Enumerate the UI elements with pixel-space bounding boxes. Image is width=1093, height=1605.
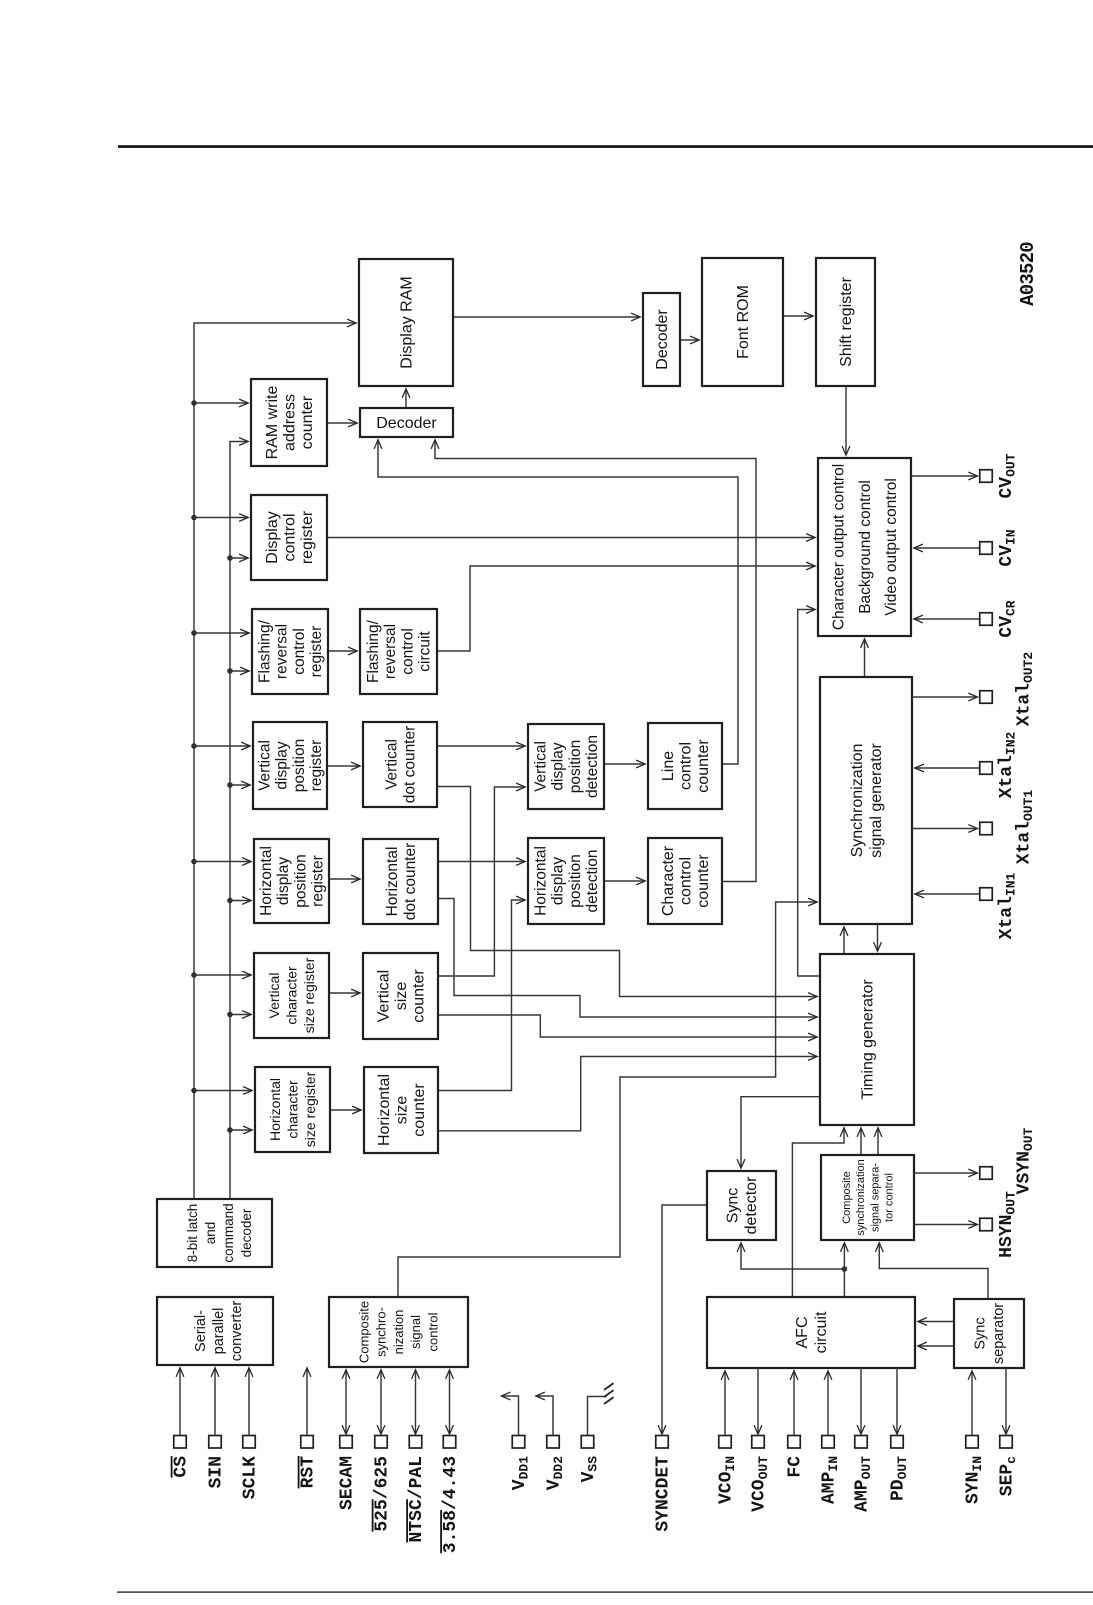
wire: trunk2 branch to Horizontal display position register [230,900,251,902]
wire: Display control register to Character output control [327,537,815,539]
block: Flashing/reversal control circuit [360,609,437,694]
wire: trunk1 branch to Vertical display position register [194,745,250,747]
svg-text:register: register [299,510,316,564]
svg-text:control: control [677,857,694,905]
svg-text:register: register [308,626,325,678]
svg-text:display: display [550,742,567,790]
block: Composite synchronization signal separator control [821,1155,914,1240]
svg-text:position: position [291,739,308,792]
svg-text:detection: detection [584,850,601,913]
wire: trunk1 branch to Horizontal character size register [194,1090,252,1092]
svg-text:SECAM: SECAM [338,1456,358,1510]
svg-text:Horizontal: Horizontal [258,846,275,916]
wire: Timing generator to Character output control [798,610,820,977]
pin NTSC/PAL [407,1370,427,1542]
svg-text:signal separa-: signal separa- [869,1163,881,1232]
svg-text:SYNCDET: SYNCDET [654,1456,674,1532]
block: AFC circuit [707,1297,915,1368]
svg-text:8-bit latch: 8-bit latch [185,1204,200,1263]
block: Horizontal dot counter [363,839,438,924]
svg-text:register: register [310,855,327,907]
pin AMPIN [820,1371,842,1504]
wire: Character control counter to Decoder [435,440,756,882]
svg-text:detection: detection [584,735,601,798]
block: Character control counter [648,838,722,924]
svg-text:character: character [284,1080,300,1139]
svg-text:Decoder: Decoder [654,309,671,370]
svg-text:Synchronization: Synchronization [849,744,866,858]
wire: Sync detector to SYNCDET pin [662,1205,707,1434]
top rule [118,145,1093,148]
wire: Line control counter to Decoder [378,440,738,764]
wire: Composite sync signal control to Synchronization signal generator [398,902,817,1297]
pin CVCR [914,600,1019,637]
block: Vertical dot counter [363,722,437,807]
svg-text:size: size [393,1096,410,1125]
wire: Horizontal dot counter to Timing generator [438,899,817,1018]
wire: Shift register to Character output control [845,386,847,455]
svg-text:RAM write: RAM write [264,386,281,460]
pin VSYNOUT [914,1127,1036,1194]
wire: trunk2 branch to Flashing register [230,670,249,672]
pin AMPOUT [853,1368,875,1512]
svg-text:SCLK: SCLK [241,1456,261,1499]
pin XtalIN1 [915,872,1019,939]
svg-text:Horizontal: Horizontal [267,1078,283,1141]
svg-text:Horizontal: Horizontal [376,1074,393,1146]
pin SYNIN [964,1371,986,1504]
block: Shift register [816,258,875,386]
svg-text:NTSC/PAL: NTSC/PAL [407,1456,427,1542]
svg-text:Vertical: Vertical [375,970,392,1022]
svg-text:Shift register: Shift register [838,276,855,366]
block: Sync separator [954,1299,1024,1368]
wire: trunk1 branch to Display control register [194,517,248,519]
wire: Composite sync separator control to Timing generator (2) [877,1128,879,1155]
wire: Horizontal dot counter to Horizontal display position detection [438,861,525,863]
wire: trunk2 branch to Horizontal character size register [230,1129,252,1131]
svg-text:counter: counter [410,969,427,1023]
svg-text:Timing generator: Timing generator [859,979,876,1100]
wire: Sync separator to AFC circuit (2) [918,1345,954,1347]
svg-text:3.58/4.43: 3.58/4.43 [441,1456,461,1553]
svg-text:reversal: reversal [382,624,399,679]
wire: trunk2 branch to Display control register [230,557,248,559]
svg-text:Vertical: Vertical [266,973,282,1019]
svg-text:detector: detector [743,1176,760,1234]
pin XtalOUT1 [912,790,1036,865]
svg-text:converter: converter [229,1301,245,1362]
svg-text:position: position [567,854,584,907]
block: Decoder (RAM address) [360,408,453,437]
block: Horizontal display position register [254,839,329,923]
wire: Vertical dot counter to Vertical display position detection [437,745,525,747]
svg-text:address: address [281,394,298,451]
wire: trunk1 branch to Horizontal display position register [194,861,251,863]
wire: trunk1 branch to RAM write address counter [194,402,248,404]
svg-text:Composite: Composite [841,1171,853,1224]
wire: Vertical display position detection to Line control counter [604,763,645,765]
wire: Vertical display position register to Vertical dot counter [327,765,360,767]
svg-text:position: position [567,740,584,793]
svg-text:counter: counter [695,739,712,793]
block: Decoder (font) [643,293,680,386]
wire: Decoder to Display RAM [405,389,407,408]
block: Timing generator [820,954,914,1125]
svg-text:size register: size register [302,1071,318,1147]
pin VSS [579,1383,613,1482]
wire: Horizontal size counter to Horizontal display position detection [438,900,525,1091]
wire: trunk2 branch to Vertical display position register [230,784,250,786]
pin SEPc [998,1368,1020,1496]
pin CVOUT [911,453,1019,498]
block: Flashing/reversal control register [252,609,328,694]
wire: Timing generator to Sync detector [741,1097,820,1168]
wire: Sync separator to AFC circuit (1) [918,1321,954,1323]
block: Display RAM [359,259,453,386]
svg-text:A03520: A03520 [1017,242,1039,306]
svg-text:Flashing/: Flashing/ [365,619,382,683]
block: Line control counter [648,723,722,809]
svg-text:Sync: Sync [973,1317,989,1349]
wire: AFC circuit to Sync detector and sync separator control [842,1243,848,1297]
wire: Vertical size counter to Timing generator [438,1015,817,1037]
svg-text:control: control [281,513,298,561]
pin SYNCDET [654,1436,674,1532]
svg-text:control: control [426,1312,441,1351]
svg-text:synchronization: synchronization [855,1159,867,1235]
pin VDD2 [536,1396,566,1490]
svg-text:525/625: 525/625 [373,1456,393,1532]
svg-text:SIN: SIN [207,1456,227,1488]
svg-text:Background control: Background control [857,480,874,614]
pin SIN [207,1368,227,1488]
svg-text:Decoder: Decoder [376,415,437,432]
svg-text:command: command [221,1203,236,1262]
pin HSYNOUT [914,1191,1019,1258]
svg-text:synchro-: synchro- [374,1307,389,1357]
svg-text:and: and [203,1222,218,1245]
pin VCOOUT [750,1368,772,1512]
svg-text:register: register [308,740,325,792]
svg-text:signal: signal [408,1315,423,1349]
svg-text:Character: Character [660,845,677,916]
wire: branch to Sync detector [741,1243,844,1269]
pin XtalOUT2 [912,652,1036,727]
block: Vertical display position register [253,722,327,809]
svg-text:AFC: AFC [794,1317,811,1349]
block: Horizontal size counter [364,1067,438,1153]
pin VCOIN [717,1371,739,1504]
wire: Horizontal display position register to Horizontal dot counter [329,878,360,880]
wire: trunk2 branch to Vertical character size register [230,1014,251,1016]
wire: Flashing circuit to Character output control [437,566,815,651]
wire: font Decoder to Font ROM [680,339,699,341]
svg-text:Flashing/: Flashing/ [256,619,273,683]
wire: bus trunk 1 from 8-bit latch to Display RAM [191,323,356,1199]
svg-text:parallel: parallel [211,1308,227,1355]
svg-text:Font ROM: Font ROM [735,285,752,359]
block: Sync detector [707,1171,776,1240]
block: Vertical display position detection [528,724,604,809]
svg-text:display: display [550,857,567,905]
svg-text:character: character [283,966,299,1025]
pin VDD1 [502,1396,532,1490]
pin RST [299,1368,319,1488]
svg-text:dot counter: dot counter [402,843,419,921]
block: Serial-parallel converter [157,1297,273,1365]
svg-text:Vertical: Vertical [256,740,273,791]
svg-text:dot counter: dot counter [401,726,418,804]
pin FC [786,1371,806,1478]
block: Horizontal character size register [255,1067,330,1152]
block: Vertical character size register [254,953,329,1038]
svg-text:position: position [292,854,309,907]
wire: Sync separator to Composite sync separator control [879,1243,988,1299]
svg-text:RST: RST [299,1456,319,1489]
svg-text:CS: CS [172,1456,192,1478]
svg-text:Vertical: Vertical [532,741,549,792]
svg-text:reversal: reversal [274,624,291,679]
block: Vertical size counter [363,953,438,1039]
svg-text:Horizontal: Horizontal [532,846,549,916]
wire: Synchronization signal generator to Character output control [864,639,866,677]
svg-text:decoder: decoder [239,1208,254,1257]
pin PDOUT [889,1368,911,1501]
wire: trunk1 branch to Flashing register [194,632,249,634]
svg-text:nization: nization [391,1310,406,1355]
svg-text:Video output control: Video output control [883,478,900,616]
pin 3.58/4.43 [441,1370,461,1553]
wire: Flashing register to Flashing circuit [328,650,357,652]
svg-text:FC: FC [786,1456,806,1478]
svg-text:control: control [399,628,416,675]
wire: trunk1 branch to Vertical character size register [194,974,251,976]
wire: Composite sync separator control to Timing generator (1) [860,1128,862,1155]
svg-text:control: control [291,628,308,675]
block: Display control register [251,495,327,580]
svg-text:tor control: tor control [884,1173,896,1222]
svg-text:counter: counter [695,854,712,908]
svg-text:size register: size register [301,957,317,1033]
svg-text:Composite: Composite [356,1301,371,1363]
svg-text:Character output control: Character output control [831,464,848,630]
svg-text:signal generator: signal generator [868,742,885,857]
block: Horizontal display position detection [528,838,604,924]
svg-text:Vertical: Vertical [383,739,400,790]
svg-text:Line: Line [660,751,677,781]
wire: Vertical dot counter to Timing generator [437,787,817,997]
wire: Vertical character size register to Vertical size counter [329,992,360,994]
block: RAM write address counter [251,379,327,466]
wire: Vertical size counter to Vertical display position detection [438,787,525,976]
figure number A03520 [1017,242,1039,306]
svg-text:circuit: circuit [813,1311,830,1353]
svg-text:Serial-: Serial- [193,1310,209,1352]
wire: Timing generator to Synchronization signal generator [843,927,845,954]
block: Synchronization signal generator [820,677,912,924]
block: Font ROM [702,258,783,386]
wire: Font ROM to Shift register [783,315,813,317]
block: 8-bit latch and command decoder [157,1199,272,1267]
block: Character output control / Background control / Video output control [818,458,911,636]
svg-text:circuit: circuit [417,631,434,672]
block: Composite synchronization signal control [329,1297,468,1367]
svg-text:counter: counter [411,1083,428,1137]
wire: RAM write address counter to Decoder [327,422,357,424]
svg-text:display: display [275,857,292,905]
svg-text:display: display [274,741,291,789]
pin CS [172,1368,192,1478]
svg-text:separator: separator [991,1303,1007,1364]
svg-text:control: control [677,742,694,790]
wire: Horizontal size counter to Timing generator [438,1057,817,1131]
wire: Display RAM to font Decoder [453,316,640,318]
svg-text:size: size [393,982,410,1011]
svg-text:Horizontal: Horizontal [384,847,401,917]
wire: Horizontal display position detection to Character control counter [604,880,645,882]
wire: AFC circuit to Timing generator [792,1128,844,1297]
pin 525/625 [373,1370,393,1532]
pin CVIN [914,529,1019,566]
pin SECAM [338,1370,358,1510]
wire: bus trunk 2 from 8-bit latch [227,442,248,1200]
svg-text:Display RAM: Display RAM [398,276,415,368]
bottom rule [117,1591,1093,1592]
svg-text:counter: counter [299,395,316,449]
pin SCLK [241,1368,261,1499]
svg-text:Sync: Sync [725,1188,742,1224]
wire: Synchronization signal generator to Timing generator [877,924,879,951]
svg-text:Display: Display [264,511,281,563]
wire: Horizontal character size register to Horizontal size counter [330,1109,361,1111]
pin XtalIN2 [915,731,1019,798]
